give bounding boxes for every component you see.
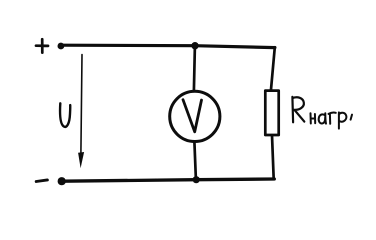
- wire top horizontal: [61, 45, 275, 47]
- minus terminal label: [36, 180, 47, 182]
- voltmeter V letter: [183, 100, 202, 132]
- node bottom junction: [193, 176, 200, 183]
- wire voltmeter top stub: [194, 46, 195, 90]
- label а: [319, 113, 326, 123]
- voltage arrow U head: [78, 152, 84, 168]
- label р: [339, 112, 346, 128]
- wire right upper vertical: [271, 47, 275, 90]
- voltage arrow U shaft: [81, 55, 82, 154]
- plus terminal label: [36, 39, 48, 52]
- label н: [311, 113, 316, 123]
- wire bottom horizontal: [62, 179, 274, 181]
- resistor R1 body: [265, 91, 278, 135]
- label г: [329, 113, 336, 124]
- label comma after нагр: [351, 115, 352, 120]
- node top-left terminal: [58, 43, 65, 50]
- node bottom-left terminal: [58, 177, 66, 185]
- label U: [60, 103, 70, 127]
- wire right lower vertical: [272, 135, 274, 179]
- voltmeter V1 circle: [170, 91, 220, 141]
- label R: [292, 97, 304, 122]
- node top junction: [191, 42, 198, 49]
- wire voltmeter bottom stub: [194, 142, 196, 180]
